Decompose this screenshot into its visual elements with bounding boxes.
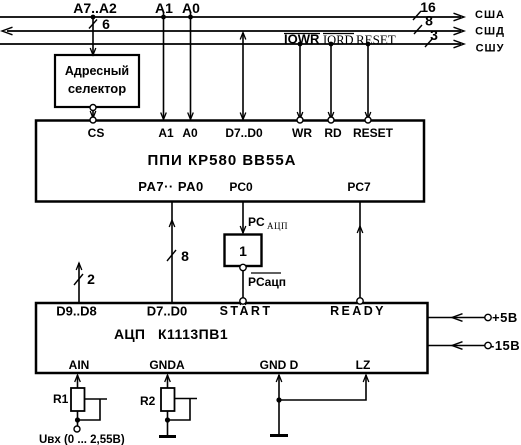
svg-text:8: 8: [181, 248, 189, 264]
svg-text:A0: A0: [182, 0, 200, 16]
svg-text:СШA: СШA: [475, 9, 505, 21]
svg-text:СШУ: СШУ: [476, 43, 505, 55]
svg-text:3: 3: [430, 27, 438, 43]
svg-text:PC0: PC0: [229, 180, 253, 194]
svg-text:PA7·· PA0: PA7·· PA0: [138, 179, 203, 194]
svg-text:АЦП: АЦП: [267, 221, 288, 231]
svg-text:GND D: GND D: [260, 358, 299, 372]
svg-text:К1113ПВ1: К1113ПВ1: [158, 326, 228, 342]
svg-text:A0: A0: [182, 126, 198, 140]
svg-text:АЦП: АЦП: [114, 326, 145, 342]
svg-text:R1: R1: [53, 392, 69, 406]
svg-text:PCацп: PCацп: [248, 275, 286, 289]
svg-text:ППИ КР580 ВВ55А: ППИ КР580 ВВ55А: [147, 152, 296, 169]
svg-text:2: 2: [87, 271, 95, 287]
svg-text:Адресный: Адресный: [65, 64, 129, 78]
svg-text:RESET: RESET: [353, 126, 394, 140]
svg-text:A1: A1: [155, 0, 173, 16]
svg-text:READY: READY: [330, 304, 386, 318]
svg-text:+5В: +5В: [492, 310, 518, 325]
svg-text:A1: A1: [158, 126, 174, 140]
svg-text:GNDA: GNDA: [149, 358, 185, 372]
svg-text:D7..D0: D7..D0: [225, 126, 263, 140]
svg-text:START: START: [220, 304, 273, 318]
svg-text:CS: CS: [88, 126, 105, 140]
svg-text:LZ: LZ: [356, 358, 371, 372]
svg-text:RD: RD: [324, 126, 342, 140]
svg-text:R2: R2: [140, 394, 156, 408]
svg-text:RESET: RESET: [356, 32, 396, 47]
svg-text:6: 6: [102, 16, 110, 32]
svg-text:IORD: IORD: [323, 33, 354, 47]
svg-text:D9..D8: D9..D8: [56, 304, 96, 319]
svg-text:СШД: СШД: [475, 26, 505, 38]
svg-text:WR: WR: [292, 126, 312, 140]
svg-text:селектор: селектор: [68, 81, 126, 96]
svg-text:A7..A2: A7..A2: [73, 0, 117, 16]
svg-text:Uвх (0 ... 2,55В): Uвх (0 ... 2,55В): [39, 434, 125, 445]
svg-text:-15В: -15В: [490, 338, 520, 353]
svg-text:PC: PC: [248, 215, 265, 229]
svg-text:1: 1: [239, 243, 247, 259]
svg-text:PC7: PC7: [347, 180, 371, 194]
svg-text:IOWR: IOWR: [284, 32, 320, 47]
svg-text:AIN: AIN: [69, 358, 90, 372]
svg-text:D7..D0: D7..D0: [147, 304, 187, 319]
